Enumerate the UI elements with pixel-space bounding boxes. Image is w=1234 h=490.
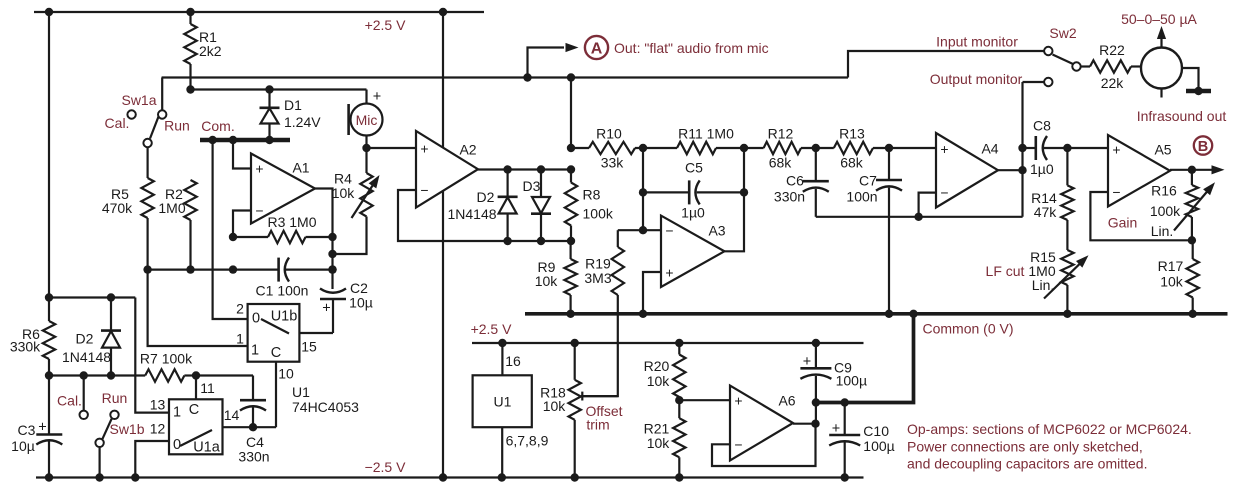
- svg-text:10µ: 10µ: [11, 438, 35, 454]
- label -2.5 V (bottom): [365, 459, 407, 475]
- svg-text:R12: R12: [768, 125, 794, 141]
- svg-text:1µ0: 1µ0: [1030, 161, 1054, 177]
- junction A4 inverting / feedback: [914, 213, 922, 221]
- label A2: [459, 141, 476, 157]
- svg-text:+: +: [940, 141, 948, 157]
- wire R13 to A4: [873, 147, 936, 149]
- svg-text:A5: A5: [1154, 141, 1171, 157]
- resistor R11: [677, 142, 716, 154]
- label A3 plus input: [665, 264, 673, 280]
- wire U1b pin1 line: [148, 270, 248, 346]
- label Output monitor: [930, 71, 1023, 87]
- svg-text:C: C: [189, 402, 199, 418]
- label R18 value: [540, 384, 566, 414]
- junction mic output node: [362, 144, 370, 152]
- svg-text:100k: 100k: [583, 205, 614, 221]
- svg-text:+2.5 V: +2.5 V: [365, 17, 407, 33]
- capacitor C5: [689, 180, 700, 204]
- arrow signal output: [1212, 165, 1225, 174]
- junction A5 output: [1188, 166, 1196, 174]
- label A4 plus input: [940, 141, 948, 157]
- wire meter bottom stub: [1160, 89, 1162, 98]
- svg-text:330n: 330n: [238, 448, 269, 464]
- svg-text:R22: R22: [1099, 42, 1125, 58]
- svg-text:16: 16: [505, 353, 521, 369]
- meter M1 needle: [1157, 26, 1166, 49]
- svg-text:+: +: [255, 160, 263, 176]
- switch Sw1a Cal contact: [127, 110, 135, 118]
- resistor R1: [184, 12, 196, 90]
- svg-text:U1a: U1a: [193, 440, 221, 456]
- junction C5 right: [740, 188, 748, 196]
- svg-text:0: 0: [252, 311, 260, 327]
- wire mic bottom lead: [365, 136, 367, 149]
- wire mic supply line: [191, 88, 367, 90]
- switch Sw1a pole contact: [143, 139, 151, 147]
- svg-text:74HC4053: 74HC4053: [292, 399, 359, 415]
- svg-text:Power connections are only ske: Power connections are only sketched,: [907, 438, 1143, 454]
- wire C1 node line: [148, 269, 333, 271]
- svg-text:Mic: Mic: [356, 112, 378, 128]
- svg-text:+: +: [665, 264, 673, 280]
- wire Sw1b pole lead: [98, 447, 100, 478]
- svg-text:3M3: 3M3: [584, 270, 611, 286]
- svg-text:U1b: U1b: [271, 309, 298, 325]
- wire C5 right lead: [697, 191, 744, 193]
- label R14 value: [1031, 190, 1057, 220]
- svg-text:100n: 100n: [846, 188, 877, 204]
- junction R16/R17/feedback: [1188, 236, 1196, 244]
- wire A6 feedback loop: [712, 424, 816, 466]
- svg-text:10k: 10k: [647, 373, 671, 389]
- junction R15 / common bus: [1063, 310, 1071, 318]
- junction top rail / A2 power feed: [439, 8, 447, 16]
- wire U1b pin10 lead: [275, 362, 277, 428]
- junction Com bar / A1 noninverting: [229, 136, 237, 144]
- svg-text:470k: 470k: [102, 200, 133, 216]
- junction top rail / R1: [186, 8, 194, 16]
- switch Sw1a Run contact: [158, 110, 166, 118]
- wire A2 out riser: [570, 78, 572, 149]
- junction D2 bottom: [503, 237, 511, 245]
- label R21 value: [644, 420, 671, 451]
- wire U1b pin15 lead: [299, 332, 333, 334]
- label C6 value: [774, 172, 805, 204]
- junction A3 noninverting / common bus: [639, 310, 647, 318]
- wire A1 inverting input: [233, 211, 251, 238]
- junction bottom rail / R21: [675, 473, 683, 481]
- wire R4 bottom jog: [333, 217, 367, 255]
- label C8 value: [1030, 117, 1054, 177]
- capacitor C10: [829, 403, 860, 478]
- label A out description: [614, 40, 769, 56]
- junction left column / R7 line: [45, 371, 53, 379]
- label C2 plus: [322, 301, 330, 317]
- label +2.5 V (top): [365, 17, 407, 33]
- label C10 value: [863, 423, 894, 454]
- junction D3 top: [537, 165, 545, 173]
- label U1a control C: [189, 402, 199, 418]
- wire A1 output column: [331, 237, 333, 289]
- svg-text:R10: R10: [596, 125, 622, 141]
- junction C5 left: [639, 188, 647, 196]
- label R15 value: [1028, 249, 1056, 293]
- wire input monitor: [848, 51, 1044, 78]
- svg-text:+: +: [322, 301, 330, 317]
- label R4 value: [332, 170, 356, 201]
- label U1a pin 12: [150, 420, 166, 436]
- label C9 plus: [803, 354, 811, 370]
- svg-text:Sw1a: Sw1a: [121, 92, 156, 108]
- svg-text:Infrasound out: Infrasound out: [1137, 108, 1227, 124]
- wire A2 feedback loop: [398, 190, 571, 241]
- label U1a input 0: [173, 437, 181, 453]
- label Cal. (Sw1a): [105, 115, 130, 131]
- wire Cal supply line: [49, 296, 135, 298]
- ic U1 power block: [473, 375, 532, 427]
- wire A3 noninverting to common: [643, 272, 661, 314]
- svg-text:10k: 10k: [535, 273, 559, 289]
- wire mic top lead: [365, 90, 367, 104]
- svg-text:Op-amps: sections of MCP6022 o: Op-amps: sections of MCP6022 or MCP6024.: [907, 421, 1192, 437]
- label U1 pins 6,7,8,9: [506, 432, 549, 448]
- wire A5 feedback loop: [1090, 192, 1192, 240]
- junction mid rail / U1 pin16: [498, 339, 506, 347]
- switch Sw2 input contact: [1044, 47, 1052, 55]
- capacitor C7: [876, 148, 902, 314]
- label D2 value: [62, 330, 111, 365]
- wire Sw1a run to flat-audio line: [161, 78, 163, 111]
- switch U1a lever: [180, 430, 212, 446]
- capacitor C4: [196, 376, 266, 428]
- svg-text:14: 14: [224, 407, 240, 423]
- svg-text:A4: A4: [981, 140, 998, 156]
- svg-text:and decoupling capacitors are: and decoupling capacitors are omitted.: [907, 455, 1147, 471]
- label A3: [708, 222, 725, 238]
- svg-text:+: +: [1112, 141, 1120, 157]
- svg-text:330k: 330k: [10, 338, 41, 354]
- label Mic plus terminal: [373, 89, 381, 105]
- label meter scale 50-0-50 uA: [1121, 11, 1197, 27]
- label R16 value: [1150, 182, 1181, 239]
- svg-text:Input monitor: Input monitor: [936, 33, 1018, 49]
- label R1 value: [199, 29, 222, 59]
- label Gain: [1108, 214, 1138, 230]
- svg-text:1: 1: [173, 405, 181, 421]
- svg-text:100µ: 100µ: [863, 438, 894, 454]
- label C3 value: [11, 422, 35, 454]
- svg-text:Run: Run: [102, 390, 128, 406]
- wire A2 noninverting input: [367, 147, 417, 149]
- resistor R4 (variable): [360, 148, 372, 217]
- label Sw1a: [121, 92, 156, 108]
- resistor R5: [141, 178, 153, 270]
- svg-text:100k: 100k: [1150, 203, 1181, 219]
- wire +2.5V mid rail: [472, 342, 864, 344]
- microphone Mic body: [349, 104, 383, 136]
- wire R19 top lead: [618, 229, 643, 231]
- junction R10/R11/C5/A3 node: [639, 144, 647, 152]
- junction C8 left node: [1018, 144, 1026, 152]
- svg-text:15: 15: [301, 338, 317, 354]
- label +2.5 V (mid): [471, 321, 513, 337]
- op-amp A2: [416, 131, 478, 208]
- label Sw1b: [109, 421, 144, 437]
- wire +2.5V top rail: [34, 11, 484, 13]
- svg-text:1.24V: 1.24V: [284, 114, 321, 130]
- wire common node to A6 out: [815, 403, 817, 424]
- svg-text:D2: D2: [477, 189, 495, 205]
- resistor R10: [589, 142, 635, 154]
- label R10 value: [596, 125, 624, 170]
- label A4 minus input: [940, 185, 948, 201]
- svg-text:D1: D1: [284, 97, 302, 113]
- label U1b pin 15: [301, 338, 317, 354]
- svg-text:1N4148: 1N4148: [62, 349, 111, 365]
- capacitor C6: [803, 148, 829, 217]
- resistor R8: [565, 170, 577, 242]
- wire left supply column: [48, 12, 50, 478]
- label LF cut: [986, 263, 1025, 279]
- resistor R17: [1187, 240, 1199, 313]
- wire -2.5V bottom rail: [36, 476, 864, 478]
- svg-text:1: 1: [251, 343, 259, 359]
- junction Com bar / D1: [265, 136, 273, 144]
- svg-text:+: +: [373, 89, 381, 105]
- switch Sw1a lever: [150, 114, 160, 139]
- label R22 value: [1099, 42, 1125, 91]
- label A1 minus input: [255, 202, 263, 218]
- junction A6 output: [811, 420, 819, 428]
- wire A6 output: [793, 423, 816, 425]
- wire R10-R11 segment: [635, 147, 677, 149]
- label C2 value: [349, 280, 373, 311]
- svg-text:C1 100n: C1 100n: [256, 282, 309, 298]
- svg-text:R8: R8: [583, 186, 601, 202]
- wire R11-R12 segment: [716, 147, 764, 149]
- svg-text:R13: R13: [839, 125, 865, 141]
- label R11 value: [678, 125, 734, 141]
- resistor R16 (variable): [1186, 170, 1198, 241]
- svg-text:−: −: [255, 202, 263, 218]
- resistor R14: [1061, 148, 1073, 220]
- wire Sw1a pole to R5: [147, 147, 149, 178]
- label A1 plus input: [255, 160, 263, 176]
- wire A4 output column: [1021, 82, 1023, 217]
- junction R3 left / A1 inverting: [229, 233, 237, 241]
- svg-text:−: −: [734, 436, 742, 452]
- svg-text:10k: 10k: [332, 185, 356, 201]
- ic U1b analog switch: [248, 304, 300, 362]
- svg-text:10k: 10k: [1160, 273, 1184, 289]
- label A3 minus input: [665, 222, 673, 238]
- resistor R22: [1081, 60, 1142, 72]
- junction R7 / C4 / U1a pin11: [192, 371, 200, 379]
- svg-text:11: 11: [200, 380, 215, 396]
- label R6 value: [10, 326, 41, 355]
- svg-text:C3: C3: [18, 422, 36, 438]
- node B (circled): [1194, 136, 1212, 155]
- wire common bus (thick): [525, 312, 1228, 316]
- label A5 minus input: [1112, 184, 1120, 200]
- svg-text:−: −: [940, 185, 948, 201]
- label Common (0 V): [922, 320, 1013, 336]
- wire A6 noninverting input: [679, 399, 730, 401]
- junction main line x571: [567, 144, 575, 152]
- junction C8 right node: [1063, 144, 1071, 152]
- wire C6/A4 feedback line: [816, 216, 1023, 218]
- svg-text:C7: C7: [859, 172, 877, 188]
- switch Sw1b Run contact: [110, 411, 118, 419]
- svg-text:−: −: [420, 182, 428, 198]
- svg-text:10µ: 10µ: [349, 294, 373, 310]
- svg-text:Gain: Gain: [1108, 214, 1138, 230]
- junction D2 / R7 line: [107, 371, 115, 379]
- wire R12-R13 segment: [801, 147, 834, 149]
- label A5: [1154, 141, 1171, 157]
- svg-text:A3: A3: [708, 222, 725, 238]
- junction R12/R13/C6 node: [812, 144, 820, 152]
- switch Sw2 lever: [1053, 55, 1074, 65]
- wire A2 output: [478, 168, 571, 170]
- label A6 minus input: [734, 436, 742, 452]
- junction mid rail / C9: [812, 339, 820, 347]
- wire U1a pin12 lead: [135, 441, 169, 478]
- svg-text:+: +: [832, 421, 840, 437]
- svg-text:A2: A2: [459, 141, 476, 157]
- svg-text:Cal.: Cal.: [57, 392, 82, 408]
- junction C4 / pin14 line: [249, 423, 257, 431]
- junction flat-audio line / A out branch: [523, 73, 531, 81]
- label R8 value: [583, 186, 614, 221]
- label Mic: [356, 112, 378, 128]
- wire U1 ground pins lead: [501, 427, 503, 477]
- svg-text:+: +: [734, 392, 742, 408]
- label R2 value: [158, 186, 185, 216]
- wire U1b pin2 line: [213, 140, 248, 319]
- meter M1 body: [1141, 48, 1182, 89]
- op-amp A5: [1108, 135, 1170, 207]
- label U1 pin 16: [505, 353, 521, 369]
- svg-text:+: +: [803, 354, 811, 370]
- svg-text:B: B: [1198, 139, 1208, 155]
- label C10 plus: [832, 421, 840, 437]
- label Offset trim: [585, 403, 622, 433]
- junction bottom rail / U1 pins: [498, 473, 506, 481]
- junction D2 top: [503, 165, 511, 173]
- label R9 value: [535, 259, 559, 289]
- svg-text:47k: 47k: [1034, 204, 1058, 220]
- label R7 value: [140, 350, 193, 366]
- label R20 value: [644, 358, 671, 389]
- junction C1 right node: [328, 265, 336, 273]
- wire common bus drop (thick): [816, 314, 914, 403]
- svg-text:Run: Run: [164, 117, 190, 133]
- svg-text:D3: D3: [523, 178, 541, 194]
- label A1: [292, 159, 309, 175]
- junction Com bar / U1b pin2 line: [208, 136, 216, 144]
- svg-text:Sw1b: Sw1b: [109, 421, 144, 437]
- wire R7 line: [49, 374, 145, 376]
- svg-text:U1: U1: [494, 393, 512, 409]
- junction C7 / common bus: [885, 310, 893, 318]
- svg-text:68k: 68k: [840, 154, 864, 170]
- wire A2out to R10: [571, 147, 589, 149]
- wire A1 output: [315, 189, 333, 238]
- wire C5 node riser: [642, 148, 644, 230]
- label R17 value: [1158, 258, 1184, 290]
- svg-text:+: +: [420, 140, 428, 156]
- label D2 clamp value: [447, 189, 496, 222]
- svg-text:C: C: [271, 345, 281, 361]
- wire flat-audio line: [162, 76, 848, 78]
- svg-text:+2.5 V: +2.5 V: [471, 321, 513, 337]
- junction left column / Cal supply: [45, 293, 53, 301]
- svg-text:LF cut: LF cut: [986, 263, 1025, 279]
- label Run (Sw1a): [164, 117, 190, 133]
- switch U1b lever: [261, 319, 289, 334]
- label U1a: [193, 440, 221, 456]
- svg-text:−2.5 V: −2.5 V: [365, 459, 407, 475]
- junction Cal contact / R7 line: [80, 371, 88, 379]
- label D1 value: [284, 97, 321, 130]
- svg-text:C10: C10: [863, 423, 889, 439]
- wire C5 left lead: [643, 191, 689, 193]
- label R5 value: [102, 186, 133, 216]
- label A6 plus input: [734, 392, 742, 408]
- junction R1 / mic supply: [186, 85, 194, 93]
- wire U1a pin13 line: [135, 298, 169, 413]
- wire A4 inverting input: [919, 193, 936, 217]
- svg-text:C5: C5: [685, 159, 703, 175]
- label U1b input 1: [251, 343, 259, 359]
- label R13 value: [839, 125, 865, 170]
- label Cal. (Sw1b): [57, 392, 82, 408]
- svg-text:33k: 33k: [601, 154, 625, 170]
- label C5 value: [681, 159, 705, 220]
- svg-text:A6: A6: [778, 392, 795, 408]
- junction A1 inverting branch node: [229, 265, 237, 273]
- node A (circled): [585, 36, 608, 59]
- wire output monitor: [1023, 81, 1044, 83]
- svg-text:A1: A1: [292, 159, 309, 175]
- svg-text:50–0–50 µA: 50–0–50 µA: [1121, 11, 1197, 27]
- resistor R18 (offset trim): [569, 343, 581, 478]
- svg-text:1N4148: 1N4148: [447, 206, 496, 222]
- label A2 minus input: [420, 182, 428, 198]
- wire A3 output riser: [724, 148, 744, 251]
- resistor R15 (variable): [1061, 220, 1073, 314]
- svg-text:Output monitor: Output monitor: [930, 71, 1023, 87]
- svg-text:10: 10: [278, 365, 294, 381]
- svg-text:Com.: Com.: [201, 118, 234, 134]
- label Com.: [201, 118, 234, 134]
- label U1b: [271, 309, 298, 325]
- label R12 value: [768, 125, 794, 170]
- svg-text:U1: U1: [292, 384, 310, 400]
- junction A4 output: [1018, 166, 1026, 174]
- capacitor C3: [36, 435, 62, 445]
- op-amp A3: [661, 216, 724, 287]
- junction C10 / common wire: [841, 398, 849, 406]
- label C9 value: [834, 360, 867, 389]
- svg-text:R17: R17: [1158, 258, 1184, 274]
- junction C1 line / A1 output column: [328, 265, 336, 273]
- wire meter to common bar: [1182, 68, 1199, 89]
- wire A3 inverting input: [643, 229, 661, 231]
- junction common bus / drop: [909, 310, 917, 318]
- junction R5 bottom node: [143, 265, 151, 273]
